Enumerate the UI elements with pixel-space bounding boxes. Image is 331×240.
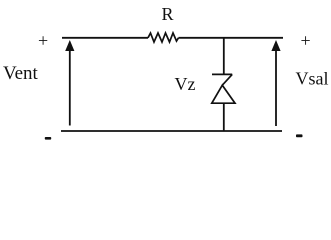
zener diode Vz cathode bar (212, 73, 232, 75)
wire zener top lead (223, 38, 225, 75)
zener diode Vz anode triangle (212, 85, 235, 103)
wire zener bottom lead (223, 103, 225, 131)
svg-text:Vsal: Vsal (296, 69, 329, 89)
wire top rail (62, 37, 148, 39)
arrow Vsal (output polarity arrow) (275, 49, 277, 126)
svg-text:+: + (301, 30, 311, 50)
label - right (296, 134, 303, 137)
svg-text:R: R (162, 4, 174, 24)
wire top rail right of resistor (179, 37, 284, 39)
wire bottom rail (61, 130, 282, 132)
label - left (45, 137, 51, 140)
resistor R (148, 33, 179, 42)
svg-text:+: + (38, 30, 48, 50)
svg-text:Vz: Vz (175, 74, 196, 94)
zener diode Vz bend stroke (222, 74, 232, 85)
arrow Vent (input polarity arrow) (69, 49, 71, 126)
svg-text:Vent: Vent (3, 63, 39, 84)
